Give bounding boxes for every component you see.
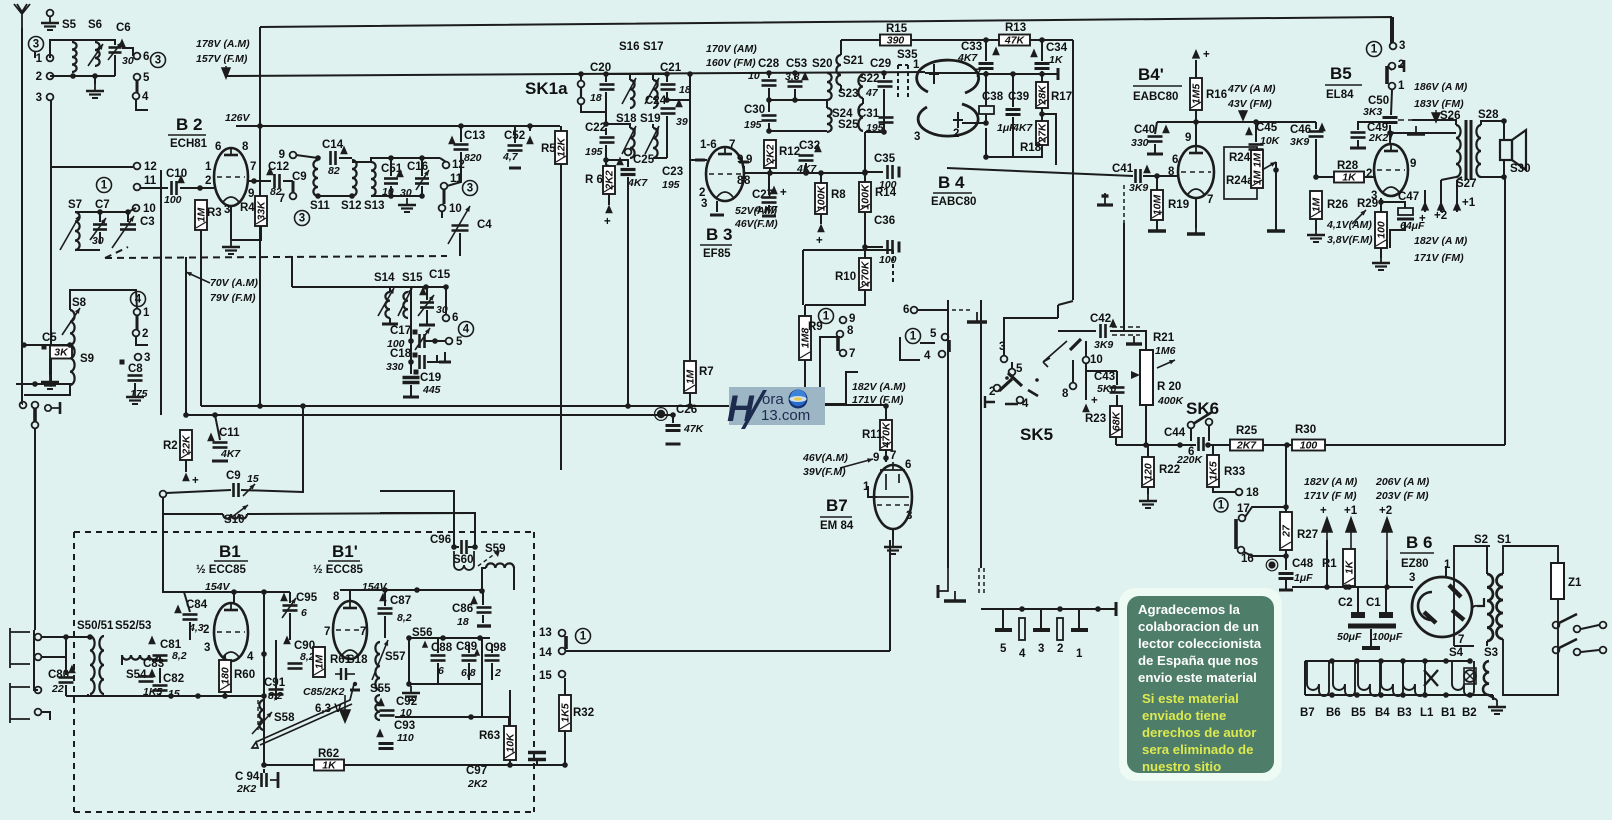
terminal bbox=[134, 309, 141, 316]
capacitor C32 bbox=[799, 154, 814, 157]
C4 adjust arrow bbox=[448, 206, 470, 244]
svg-text:C35: C35 bbox=[874, 153, 896, 165]
svg-text:S2: S2 bbox=[1474, 534, 1488, 546]
resistor R60 bbox=[219, 660, 231, 692]
svg-text:R14: R14 bbox=[875, 187, 897, 199]
terminal bbox=[1083, 357, 1090, 364]
svg-text:R29: R29 bbox=[1357, 198, 1378, 210]
capacitor C14 bbox=[329, 151, 332, 165]
C15 mark bbox=[419, 287, 427, 296]
watermark globe bbox=[789, 390, 808, 409]
svg-text:13.com: 13.com bbox=[761, 407, 810, 424]
junction bbox=[766, 128, 772, 134]
junction bbox=[1387, 130, 1393, 136]
resistor R11 bbox=[880, 420, 892, 450]
svg-text:+1: +1 bbox=[1462, 197, 1476, 209]
capacitor C33 bbox=[979, 62, 994, 65]
svg-text:B 2: B 2 bbox=[176, 115, 202, 134]
junction bbox=[603, 157, 609, 163]
svg-text:SK6: SK6 bbox=[1186, 399, 1219, 418]
resistor R29 bbox=[1375, 212, 1387, 248]
wire bbox=[820, 173, 822, 183]
svg-text:1: 1 bbox=[36, 53, 43, 65]
junction lamp bbox=[1378, 658, 1384, 664]
stub bbox=[350, 689, 360, 692]
wire bbox=[390, 186, 392, 196]
svg-text:S50/51: S50/51 bbox=[77, 620, 114, 632]
wire bbox=[224, 655, 226, 660]
junction bbox=[70, 73, 76, 79]
S18 adjust arrow bbox=[622, 126, 636, 154]
wire bbox=[1086, 370, 1117, 372]
junction bbox=[125, 209, 131, 215]
wire bbox=[75, 249, 100, 251]
SK5 arrow bbox=[1043, 341, 1067, 367]
svg-text:R 20: R 20 bbox=[1157, 381, 1181, 393]
lamp socket B1 bbox=[1452, 661, 1474, 696]
capacitor C39 bbox=[1006, 108, 1021, 111]
wire bbox=[805, 163, 807, 173]
dashed shield bbox=[978, 568, 980, 594]
svg-text:C16: C16 bbox=[407, 161, 428, 173]
svg-text:9: 9 bbox=[737, 154, 743, 166]
svg-text:8,2: 8,2 bbox=[397, 612, 412, 624]
tube B1-prime half ECC85 bbox=[333, 601, 367, 659]
wire cap bank bus bbox=[993, 608, 1116, 610]
wire bbox=[41, 636, 90, 638]
ground box bbox=[410, 686, 412, 693]
wire bbox=[1387, 66, 1392, 70]
svg-text:3: 3 bbox=[299, 213, 305, 225]
cap 5 plate bbox=[995, 628, 1012, 632]
wire R5 down bbox=[560, 164, 562, 470]
wire bbox=[885, 450, 887, 462]
junction lamp bbox=[1467, 658, 1473, 664]
svg-text:12: 12 bbox=[452, 159, 465, 171]
wire bbox=[248, 180, 271, 182]
tube B7 EM84 bbox=[874, 465, 912, 529]
C14 mark bbox=[340, 146, 348, 155]
wire bbox=[65, 637, 67, 675]
svg-text:B4: B4 bbox=[1375, 707, 1390, 719]
wire bbox=[529, 126, 531, 131]
wire to R63 bbox=[395, 716, 509, 718]
terminal bbox=[559, 671, 566, 678]
supply arrow +2 bbox=[1382, 518, 1392, 560]
coil S59 bbox=[486, 563, 514, 568]
svg-text:3: 3 bbox=[155, 55, 161, 67]
dashed box top bbox=[74, 531, 534, 533]
C81 mark bbox=[148, 636, 156, 645]
wire bbox=[666, 116, 668, 158]
node 1 bbox=[576, 629, 591, 644]
svg-text:½ ECC85: ½ ECC85 bbox=[313, 564, 363, 576]
capacitor C86 bbox=[477, 606, 492, 609]
svg-text:R32: R32 bbox=[573, 707, 594, 719]
svg-text:C40: C40 bbox=[1134, 124, 1155, 136]
wire bbox=[241, 490, 303, 492]
coil S16 bbox=[630, 80, 635, 108]
coil S60 bbox=[454, 551, 474, 570]
resistor R10 bbox=[859, 258, 871, 290]
svg-text:5: 5 bbox=[1016, 363, 1023, 375]
C95 mark bbox=[280, 593, 288, 602]
resistor R17 bbox=[1036, 82, 1048, 108]
terminal bbox=[35, 634, 42, 641]
terminal bbox=[35, 654, 42, 661]
svg-text:S15: S15 bbox=[402, 272, 423, 284]
potentiometer R20 bbox=[1140, 350, 1153, 405]
wire bbox=[608, 194, 610, 205]
svg-text:R25: R25 bbox=[1236, 425, 1258, 437]
junction bbox=[862, 169, 868, 175]
wire bbox=[689, 160, 691, 361]
capacitor C36 bbox=[886, 240, 889, 254]
mark bbox=[414, 370, 419, 375]
stub t2 bbox=[1403, 60, 1406, 72]
wire anode B4 bbox=[977, 73, 1058, 75]
svg-text:B1': B1' bbox=[332, 542, 358, 561]
capacitor C48 bbox=[1279, 572, 1294, 575]
node 4 bbox=[459, 322, 474, 337]
lamp X bbox=[1424, 670, 1438, 686]
terminal bbox=[1389, 63, 1396, 70]
svg-text:5: 5 bbox=[456, 336, 463, 348]
wire bbox=[1011, 362, 1013, 368]
wire B1 bottom rail bbox=[88, 695, 264, 697]
junction bbox=[406, 681, 412, 687]
junction bbox=[687, 403, 693, 409]
wire bbox=[66, 695, 88, 697]
wire bbox=[1481, 121, 1504, 125]
junction bbox=[1057, 606, 1063, 612]
resistor R16 bbox=[1190, 78, 1202, 110]
terminal bbox=[290, 193, 297, 200]
junction bbox=[1177, 442, 1183, 448]
svg-text:7: 7 bbox=[279, 193, 285, 205]
capacitor C49 bbox=[1351, 131, 1366, 134]
capacitor C95 variable bbox=[283, 604, 298, 607]
resistor R26 bbox=[1310, 191, 1322, 219]
wire bbox=[1348, 586, 1350, 587]
capacitor C98 bbox=[485, 654, 500, 657]
svg-text:1M: 1M bbox=[685, 369, 697, 384]
S19 adjust arrow bbox=[645, 126, 659, 154]
svg-text:C28: C28 bbox=[758, 58, 780, 70]
wire bbox=[371, 195, 422, 197]
wire pin1 bbox=[1445, 566, 1447, 577]
wire bbox=[292, 286, 446, 288]
S14 end bbox=[382, 323, 398, 326]
tube B3 EF85 bbox=[706, 147, 744, 201]
wire bbox=[606, 160, 628, 167]
terminal bbox=[625, 149, 632, 156]
svg-text:8,2: 8,2 bbox=[172, 650, 187, 662]
wire bbox=[136, 99, 148, 110]
capacitor C5 box bbox=[50, 346, 72, 359]
wire top bus bbox=[260, 17, 1391, 44]
svg-text:B 6: B 6 bbox=[1406, 533, 1432, 552]
svg-text:B5: B5 bbox=[1330, 64, 1352, 83]
underline B6 bbox=[1400, 552, 1434, 554]
antenna bbox=[14, 4, 30, 28]
svg-text:3: 3 bbox=[701, 198, 707, 210]
wire bbox=[233, 592, 235, 603]
junction bbox=[388, 155, 394, 161]
wire bbox=[371, 158, 440, 162]
svg-text:3K9: 3K9 bbox=[1290, 136, 1309, 148]
svg-text:186V (A M): 186V (A M) bbox=[1414, 81, 1468, 93]
wire bbox=[22, 403, 23, 405]
junction bbox=[1095, 606, 1101, 612]
wire bbox=[1285, 579, 1287, 590]
wire bbox=[918, 309, 948, 311]
svg-text:C86: C86 bbox=[452, 603, 473, 615]
wire bbox=[1488, 695, 1497, 700]
svg-text:182V (A M): 182V (A M) bbox=[1414, 235, 1468, 247]
terminal bbox=[1070, 383, 1077, 390]
terminal bbox=[439, 205, 446, 212]
svg-text:6: 6 bbox=[215, 141, 221, 153]
svg-text:68K: 68K bbox=[1111, 410, 1123, 431]
capacitor C90 bbox=[288, 662, 303, 665]
wire bbox=[1481, 176, 1504, 178]
C90 mark bbox=[283, 636, 291, 645]
coil S7 bbox=[75, 212, 80, 250]
svg-text:C82: C82 bbox=[163, 673, 184, 685]
svg-text:157V (F.M): 157V (F.M) bbox=[196, 53, 248, 65]
svg-text:+1: +1 bbox=[1344, 505, 1358, 517]
S57 adjust arrow bbox=[372, 640, 388, 680]
chassis ground bbox=[976, 312, 978, 322]
dashed box right bbox=[533, 532, 535, 812]
junction bbox=[664, 71, 670, 77]
underline B1p bbox=[328, 560, 360, 562]
wire bbox=[425, 340, 446, 342]
resistor R2 bbox=[180, 430, 192, 460]
junction bbox=[527, 123, 533, 129]
svg-text:C26: C26 bbox=[676, 404, 697, 416]
svg-text:R7: R7 bbox=[699, 366, 714, 378]
svg-text:1M5: 1M5 bbox=[1191, 84, 1203, 105]
wire bbox=[491, 644, 493, 653]
wire bbox=[380, 491, 454, 547]
phono jack 2 bbox=[10, 683, 30, 723]
svg-text:+: + bbox=[816, 235, 823, 247]
wire bbox=[1381, 202, 1405, 208]
svg-text:8: 8 bbox=[1062, 388, 1069, 400]
junction bbox=[231, 589, 237, 595]
svg-text:C96: C96 bbox=[430, 534, 451, 546]
terminal bbox=[1574, 649, 1581, 656]
resistor R18 bbox=[1036, 121, 1048, 145]
node 1 bbox=[906, 329, 921, 344]
svg-text:S21: S21 bbox=[843, 55, 864, 67]
junction bbox=[183, 412, 189, 418]
svg-text:ECH81: ECH81 bbox=[170, 138, 208, 150]
lamp socket 3 bbox=[1358, 661, 1380, 696]
capacitor C96 bbox=[460, 540, 463, 554]
svg-text:EL84: EL84 bbox=[1326, 89, 1354, 101]
svg-text:S9: S9 bbox=[80, 353, 94, 365]
C5 mark bbox=[42, 345, 47, 350]
wire bbox=[1504, 179, 1506, 445]
junction bbox=[792, 70, 798, 76]
junction bbox=[1313, 174, 1319, 180]
wire bbox=[962, 122, 986, 124]
pilot lamp bbox=[1464, 670, 1476, 682]
wire bbox=[136, 336, 148, 345]
wire bbox=[87, 694, 89, 696]
svg-text:46V(F.M): 46V(F.M) bbox=[734, 218, 778, 230]
svg-text:3: 3 bbox=[467, 183, 473, 195]
R24 box frame bbox=[1224, 147, 1257, 199]
underline B7 bbox=[820, 516, 852, 518]
SK5 bar2 bbox=[1070, 339, 1081, 350]
resistor R9 bbox=[799, 316, 811, 360]
wire bbox=[1385, 587, 1387, 612]
terminal bbox=[133, 330, 140, 337]
junction bbox=[1039, 71, 1045, 77]
svg-text:6: 6 bbox=[903, 304, 909, 316]
svg-text:4: 4 bbox=[1019, 648, 1026, 660]
switch bar a bbox=[1559, 614, 1577, 623]
svg-text:1K: 1K bbox=[1342, 172, 1357, 184]
C40 end bbox=[1147, 153, 1163, 156]
S35 dashed top bbox=[898, 64, 908, 66]
capacitor C41 bbox=[1134, 169, 1137, 183]
wire bbox=[99, 212, 101, 222]
svg-text:C42: C42 bbox=[1090, 313, 1111, 325]
coil S8 bbox=[70, 310, 75, 345]
S58 adjust arrow bbox=[252, 712, 272, 734]
junction bbox=[261, 589, 267, 595]
junction bbox=[1343, 584, 1349, 590]
svg-text:120: 120 bbox=[1143, 463, 1155, 481]
wire bbox=[34, 428, 36, 630]
svg-text:C15: C15 bbox=[429, 269, 451, 281]
wire bbox=[468, 663, 470, 680]
junction bbox=[414, 587, 420, 593]
junction bbox=[300, 403, 306, 409]
svg-text:de España que nos: de España que nos bbox=[1138, 653, 1258, 668]
svg-text:15: 15 bbox=[539, 670, 552, 682]
svg-text:Si este material: Si este material bbox=[1142, 691, 1239, 706]
svg-text:1M: 1M bbox=[314, 654, 326, 669]
capacitor C53 bbox=[788, 80, 803, 83]
wire bbox=[1392, 17, 1394, 42]
svg-text:30: 30 bbox=[400, 187, 412, 199]
C52 mark bbox=[526, 136, 534, 145]
svg-text:B 4: B 4 bbox=[938, 173, 965, 192]
wire bbox=[454, 546, 459, 548]
junction bbox=[664, 97, 670, 103]
svg-text:178V (A.M): 178V (A.M) bbox=[196, 38, 250, 50]
junction bbox=[1273, 167, 1279, 173]
svg-text:R12: R12 bbox=[779, 146, 800, 158]
svg-text:S54: S54 bbox=[126, 669, 147, 681]
svg-text:2K2: 2K2 bbox=[604, 170, 616, 190]
terminal bbox=[578, 98, 585, 105]
wire bbox=[302, 406, 304, 493]
watermark box bbox=[729, 387, 825, 425]
junction bbox=[670, 412, 676, 418]
svg-text:C39: C39 bbox=[1008, 91, 1029, 103]
capacitor C42 bbox=[1099, 324, 1102, 338]
svg-text:1K5: 1K5 bbox=[1208, 461, 1220, 480]
junction bbox=[862, 244, 868, 250]
svg-text:S7: S7 bbox=[68, 199, 82, 211]
svg-text:39: 39 bbox=[676, 116, 688, 128]
wire bbox=[865, 246, 883, 248]
C6 adjust arrow bbox=[108, 42, 122, 60]
wire bbox=[606, 124, 630, 128]
svg-text:1: 1 bbox=[101, 180, 108, 192]
junction bbox=[817, 403, 823, 409]
svg-text:9: 9 bbox=[746, 154, 752, 166]
svg-text:171V (F M): 171V (F M) bbox=[1304, 490, 1357, 502]
wire bbox=[159, 693, 161, 696]
C49 end bbox=[1350, 147, 1366, 150]
svg-text:100K: 100K bbox=[860, 183, 872, 210]
svg-text:30: 30 bbox=[92, 235, 104, 247]
wire lamp top bbox=[1305, 660, 1470, 662]
wire bbox=[605, 92, 607, 124]
tube B6 EZ80 bbox=[1412, 577, 1472, 637]
wire bbox=[1116, 444, 1146, 446]
wire bbox=[508, 717, 510, 726]
junction lamp bbox=[1400, 692, 1406, 698]
wire bbox=[1457, 177, 1462, 180]
svg-text:1: 1 bbox=[205, 161, 212, 173]
wire bbox=[1208, 426, 1210, 441]
wire bbox=[666, 74, 668, 82]
terminal bbox=[1001, 356, 1008, 363]
tube B4 EABC80 upper bbox=[917, 60, 979, 93]
svg-text:3: 3 bbox=[204, 642, 210, 654]
coil S58 bbox=[259, 700, 264, 730]
wire bbox=[805, 290, 865, 305]
wire bbox=[560, 126, 562, 131]
coil S28 secondary bbox=[1476, 125, 1481, 177]
capacitor C11 bbox=[213, 441, 228, 444]
wire bbox=[445, 287, 447, 314]
svg-text:9: 9 bbox=[873, 452, 879, 464]
svg-text:S30: S30 bbox=[1510, 163, 1530, 175]
svg-text:B7: B7 bbox=[826, 496, 848, 515]
wire bbox=[275, 640, 277, 700]
wire bbox=[263, 769, 265, 773]
svg-text:+: + bbox=[1203, 49, 1210, 61]
junction lamp bbox=[1422, 658, 1428, 664]
wire bbox=[51, 166, 133, 168]
tube B2 ECH81 bbox=[214, 148, 248, 206]
terminal bbox=[446, 338, 453, 345]
ground transformer bbox=[1496, 700, 1498, 707]
B3 cathode stub bbox=[710, 214, 724, 217]
wire switch link bbox=[136, 80, 139, 93]
junction bbox=[315, 193, 321, 199]
svg-text:S13: S13 bbox=[364, 200, 384, 212]
svg-text:C29: C29 bbox=[870, 58, 891, 70]
wire bbox=[1143, 175, 1178, 177]
coil S20 bbox=[827, 73, 832, 100]
underline B4 bbox=[933, 192, 972, 194]
svg-text:S17: S17 bbox=[643, 41, 663, 53]
wire bbox=[769, 99, 827, 101]
C80 mark bbox=[68, 665, 76, 674]
svg-text:Z1: Z1 bbox=[1568, 577, 1582, 589]
